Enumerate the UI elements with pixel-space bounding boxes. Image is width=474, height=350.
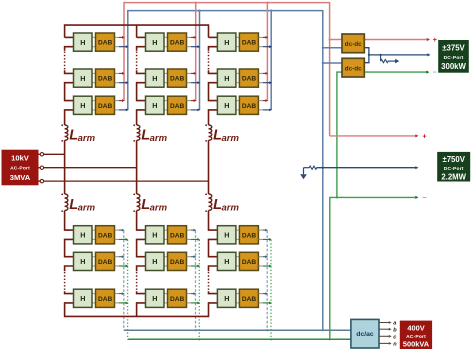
svg-text:H: H xyxy=(224,294,229,303)
label -750V polarity xyxy=(422,193,427,202)
±375V DC port box xyxy=(439,41,469,73)
wire phase-3 upper cell 1 H-DAB links xyxy=(236,37,240,46)
wire phase-2 upper cell 1 DAB+ stub xyxy=(187,36,197,39)
svg-text:DAB: DAB xyxy=(170,259,185,266)
svg-text:DAB: DAB xyxy=(98,40,113,47)
svg-text:H: H xyxy=(80,101,85,110)
wire dc-dc2 + input xyxy=(322,62,342,64)
wire 10kV phase-a line xyxy=(38,153,65,156)
svg-text:H: H xyxy=(152,294,157,303)
DAB converter phase-3 lower cell 1 xyxy=(239,226,258,244)
wire phase-1 LVDC+ collector (dashed slate) xyxy=(123,231,125,330)
DAB converter phase-2 upper cell 2 xyxy=(168,69,187,87)
wire phase-3 MVDC- riser xyxy=(270,10,272,111)
svg-text:H: H xyxy=(152,231,157,240)
H-bridge phase-1 upper cell 3 xyxy=(74,96,93,114)
H-bridge phase-3 lower cell 1 xyxy=(217,226,236,244)
svg-text:+: + xyxy=(422,132,427,141)
H-bridge phase-1 lower cell 3 xyxy=(74,289,93,307)
svg-text:DAB: DAB xyxy=(98,296,113,303)
wire phase-2 lower chain xyxy=(137,211,146,304)
DAB converter phase-1 upper cell 3 xyxy=(96,96,115,114)
wire phase-2 lower cell 2 DAB+ stub xyxy=(187,255,197,258)
svg-text:−: − xyxy=(433,67,438,76)
wire phase-3 lower cell 1 H-DAB links xyxy=(236,230,240,239)
svg-text:H: H xyxy=(224,257,229,266)
wire phase-3 upper cell 3 H-DAB links xyxy=(236,101,240,110)
wire phase-3 LVDC- collector (dotted green) xyxy=(270,240,272,339)
wire phase-1 LVDC- collector (dotted green) xyxy=(127,240,129,339)
svg-text:H: H xyxy=(80,38,85,47)
DAB converter phase-2 upper cell 1 xyxy=(168,33,187,51)
label L_arm phase-1 lower xyxy=(69,197,95,214)
wire MMC top DC bus xyxy=(65,25,209,37)
wire dc-dc1 +375V output xyxy=(364,38,430,41)
svg-text:±750V: ±750V xyxy=(442,155,465,164)
wire phase-2 upper cell 1 H-DAB links xyxy=(164,37,168,46)
ground resistor + down arrow (750V mid) xyxy=(300,166,317,179)
wire phase-1 lower chain xyxy=(65,211,74,304)
wire phase-3 leg mid xyxy=(208,140,210,194)
wire phase-1 leg mid xyxy=(64,140,66,194)
H-bridge phase-3 upper cell 3 xyxy=(217,96,236,114)
svg-text:H: H xyxy=(224,38,229,47)
svg-text:H: H xyxy=(80,231,85,240)
wire phase-3 MVDC+ riser xyxy=(266,1,268,100)
label L_arm phase-2 upper xyxy=(141,128,167,145)
wire phase-3 lower chain xyxy=(209,211,218,304)
svg-text:c: c xyxy=(393,335,397,341)
wire phase-2 lower cell 2 DAB- stub xyxy=(187,265,201,268)
wire MMC bottom DC bus xyxy=(65,303,209,316)
inductor L_arm phase-3 upper xyxy=(205,124,212,141)
wire phase-1 upper cell 2 DAB- stub xyxy=(115,81,129,84)
H-bridge phase-2 upper cell 2 xyxy=(146,69,165,87)
wire phase-1 upper cell 3 H-DAB links xyxy=(92,101,96,110)
svg-text:DAB: DAB xyxy=(242,103,257,110)
svg-text:10kV: 10kV xyxy=(11,154,30,163)
svg-text:H: H xyxy=(80,257,85,266)
wire 750V mid rail xyxy=(317,166,419,169)
svg-text:DAB: DAB xyxy=(170,40,185,47)
svg-text:H: H xyxy=(224,74,229,83)
svg-text:400V: 400V xyxy=(407,323,424,332)
inductor L_arm phase-1 lower xyxy=(61,193,68,212)
DAB converter phase-1 lower cell 1 xyxy=(96,226,115,244)
wire phase-1 upper cell 2 H-DAB links xyxy=(92,73,96,82)
wire phase-3 upper cell 2 DAB- stub xyxy=(258,81,272,84)
wire LVDC- feeder (green vertical from dc-dc 2) xyxy=(336,72,428,198)
DAB converter phase-1 lower cell 3 xyxy=(96,289,115,307)
svg-text:DAB: DAB xyxy=(242,232,257,239)
±750V DC port box xyxy=(438,152,470,181)
DAB converter phase-2 lower cell 1 xyxy=(168,226,187,244)
wire phase-1 upper cell 1 H-DAB links xyxy=(92,37,96,46)
svg-text:dc/ac: dc/ac xyxy=(356,331,374,338)
wire dc-dc1 - input xyxy=(322,47,342,49)
wire phase-1 lower cell 2 DAB+ stub xyxy=(115,255,125,258)
H-bridge phase-3 upper cell 2 xyxy=(217,69,236,87)
svg-text:H: H xyxy=(80,74,85,83)
wire phase-2 upper cell 3 DAB+ stub xyxy=(187,99,197,102)
svg-text:H: H xyxy=(152,101,157,110)
svg-text:DAB: DAB xyxy=(242,259,257,266)
svg-text:DC-Port: DC-Port xyxy=(444,55,464,61)
svg-text:+: + xyxy=(433,35,438,44)
wire phase-1 upper chain xyxy=(65,37,74,125)
DAB converter phase-1 lower cell 2 xyxy=(96,252,115,270)
dc-dc converter 1 box xyxy=(342,34,364,53)
wire MVDC+ collector bus (light red, top) xyxy=(124,3,330,136)
wire phase-2 lower cell 2 H-DAB links xyxy=(164,257,168,266)
svg-text:dc-dc: dc-dc xyxy=(345,65,362,72)
wire -750V rail (green) xyxy=(330,196,419,339)
svg-text:DAB: DAB xyxy=(242,296,257,303)
wire phase-1 upper cell 1 DAB- stub xyxy=(115,45,129,48)
wire phase-2 upper cell 3 H-DAB links xyxy=(164,101,168,110)
wire phase-2 lower cell 3 DAB+ stub xyxy=(187,292,197,295)
dc-dc converter 2 box xyxy=(342,58,364,77)
DAB converter phase-1 upper cell 1 xyxy=(96,33,115,51)
wire dc-dc1 mid output xyxy=(364,48,369,55)
wire phase-3 lower cell 2 DAB+ stub xyxy=(258,255,268,258)
wire phase-2 upper cell 3 DAB- stub xyxy=(187,109,201,112)
dc/ac converter box xyxy=(351,319,379,348)
wire LV mid bus (slate, bottom) xyxy=(124,329,351,331)
svg-text:DAB: DAB xyxy=(170,76,185,83)
svg-text:n: n xyxy=(393,342,397,348)
wire 400V phase c xyxy=(379,335,397,341)
wire phase-2 upper chain xyxy=(137,37,146,125)
inductor L_arm phase-3 lower xyxy=(205,193,212,212)
svg-text:−: − xyxy=(422,193,427,202)
wire phase-3 upper cell 3 DAB- stub xyxy=(258,109,272,112)
label +375V polarity xyxy=(433,35,438,44)
DAB converter phase-3 upper cell 1 xyxy=(239,33,258,51)
wire phase-2 upper cell 2 DAB- stub xyxy=(187,81,201,84)
wire LV mid rail xyxy=(368,53,431,56)
wire dc-dc2 mid output xyxy=(364,55,369,63)
svg-text:DAB: DAB xyxy=(98,259,113,266)
wire phase-2 MVDC- riser xyxy=(198,10,200,111)
svg-text:DAB: DAB xyxy=(98,103,113,110)
svg-text:2.2MW: 2.2MW xyxy=(441,172,466,181)
wire phase-3 lower cell 2 DAB- stub xyxy=(258,265,271,268)
svg-text:DAB: DAB xyxy=(98,232,113,239)
wire phase-3 upper cell 1 DAB+ stub xyxy=(258,36,268,39)
wire phase-3 upper chain xyxy=(209,37,218,125)
H-bridge phase-2 lower cell 3 xyxy=(146,289,165,307)
svg-text:DAB: DAB xyxy=(242,76,257,83)
wire phase-3 lower cell 1 DAB- stub xyxy=(258,238,271,241)
svg-text:H: H xyxy=(152,38,157,47)
svg-text:DAB: DAB xyxy=(242,40,257,47)
DAB converter phase-3 lower cell 3 xyxy=(239,289,258,307)
H-bridge phase-1 upper cell 2 xyxy=(74,69,93,87)
DAB converter phase-2 upper cell 3 xyxy=(168,96,187,114)
label L_arm phase-2 lower xyxy=(141,197,167,214)
wire 10kV phase-c line xyxy=(38,179,209,182)
wire phase-1 lower cell 1 DAB- stub xyxy=(115,238,129,241)
svg-text:arm: arm xyxy=(150,202,168,213)
wire phase-1 lower cell 3 H-DAB links xyxy=(92,294,96,303)
svg-text:b: b xyxy=(393,327,397,333)
inductor L_arm phase-1 upper xyxy=(61,124,68,141)
H-bridge phase-2 upper cell 1 xyxy=(146,33,165,51)
svg-text:H: H xyxy=(224,231,229,240)
wire phase-1 upper cell 3 DAB+ stub xyxy=(115,99,125,102)
svg-text:3MVA: 3MVA xyxy=(10,173,31,182)
svg-text:a: a xyxy=(393,321,396,327)
svg-text:arm: arm xyxy=(78,202,96,213)
DAB converter phase-3 lower cell 2 xyxy=(239,252,258,270)
wire phase-1 lower cell 1 H-DAB links xyxy=(92,230,96,239)
svg-text:H: H xyxy=(152,74,157,83)
inductor L_arm phase-2 upper xyxy=(133,124,140,141)
svg-text:arm: arm xyxy=(222,202,240,213)
green -375V arrowhead xyxy=(426,71,429,74)
wire phase-2 lower cell 1 DAB+ stub xyxy=(187,229,197,232)
wire phase-2 LVDC- collector (dotted green) xyxy=(198,240,200,339)
wire phase-1 lower cell 2 DAB- stub xyxy=(115,265,129,268)
svg-text:DAB: DAB xyxy=(170,232,185,239)
H-bridge phase-1 lower cell 2 xyxy=(74,252,93,270)
svg-text:H: H xyxy=(152,257,157,266)
wire phase-3 lower cell 3 DAB- stub xyxy=(258,302,271,305)
svg-text:arm: arm xyxy=(150,133,168,144)
svg-text:H: H xyxy=(224,101,229,110)
wire 400V phase b xyxy=(379,327,397,333)
H-bridge phase-1 lower cell 1 xyxy=(74,226,93,244)
wire phase-1 upper cell 3 DAB- stub xyxy=(115,109,129,112)
svg-text:±375V: ±375V xyxy=(442,43,465,52)
label -375V polarity xyxy=(433,67,438,76)
wire phase-2 upper cell 2 DAB+ stub xyxy=(187,72,197,75)
wire 400V phase n xyxy=(379,342,397,348)
wire LV- bus (green, bottom) xyxy=(128,338,351,340)
wire phase-3 upper cell 2 H-DAB links xyxy=(236,73,240,82)
wire phase-1 lower cell 3 DAB+ stub xyxy=(115,292,125,295)
wire 10kV phase-b line xyxy=(38,166,137,169)
wire phase-2 LVDC+ collector (dashed slate) xyxy=(195,231,197,330)
DAB converter phase-3 upper cell 3 xyxy=(239,96,258,114)
wire phase-1 lower cell 1 DAB+ stub xyxy=(115,229,125,232)
wire phase-1 lower cell 3 DAB- stub xyxy=(115,302,129,305)
svg-text:DAB: DAB xyxy=(170,103,185,110)
wire phase-2 upper cell 2 H-DAB links xyxy=(164,73,168,82)
svg-text:DC-Port: DC-Port xyxy=(444,166,464,172)
svg-text:H: H xyxy=(80,294,85,303)
inductor L_arm phase-2 lower xyxy=(133,193,140,212)
wire +750V rail xyxy=(330,134,419,137)
10kV AC port box xyxy=(2,150,38,185)
wire phase-3 lower cell 2 H-DAB links xyxy=(236,257,240,266)
svg-text:500kVA: 500kVA xyxy=(403,340,430,349)
wire phase-3 lower cell 3 H-DAB links xyxy=(236,294,240,303)
svg-text:arm: arm xyxy=(78,133,96,144)
H-bridge phase-2 lower cell 2 xyxy=(146,252,165,270)
wire MVDC- collector bus (steel blue, top) xyxy=(128,11,323,331)
wire phase-1 upper cell 2 DAB+ stub xyxy=(115,72,125,75)
wire phase-2 leg mid xyxy=(136,140,138,194)
wire phase-2 lower cell 1 H-DAB links xyxy=(164,230,168,239)
wire phase-2 lower cell 3 DAB- stub xyxy=(187,302,201,305)
wire phase-2 MVDC+ riser xyxy=(195,1,197,100)
wire phase-1 upper cell 1 DAB+ stub xyxy=(115,36,125,39)
ground resistor + arrow (LV mid) xyxy=(381,55,400,64)
wire phase-3 upper cell 1 DAB- stub xyxy=(258,45,272,48)
H-bridge phase-2 upper cell 3 xyxy=(146,96,165,114)
wire phase-3 lower cell 1 DAB+ stub xyxy=(258,229,268,232)
wire phase-1 lower cell 2 H-DAB links xyxy=(92,257,96,266)
svg-text:300kW: 300kW xyxy=(441,62,466,71)
H-bridge phase-3 lower cell 3 xyxy=(217,289,236,307)
wire phase-3 upper cell 2 DAB+ stub xyxy=(258,72,268,75)
label +750V polarity xyxy=(422,132,427,141)
wire phase-3 LVDC+ collector (dashed slate) xyxy=(266,231,268,330)
wire phase-2 lower cell 3 H-DAB links xyxy=(164,294,168,303)
DAB converter phase-2 lower cell 2 xyxy=(168,252,187,270)
wire phase-2 lower cell 1 DAB- stub xyxy=(187,238,201,241)
H-bridge phase-1 upper cell 1 xyxy=(74,33,93,51)
H-bridge phase-3 upper cell 1 xyxy=(217,33,236,51)
DAB converter phase-1 upper cell 2 xyxy=(96,69,115,87)
DAB converter phase-3 upper cell 2 xyxy=(239,69,258,87)
svg-text:dc-dc: dc-dc xyxy=(345,41,362,48)
svg-text:DAB: DAB xyxy=(170,296,185,303)
label L_arm phase-3 upper xyxy=(213,128,239,145)
DAB converter phase-2 lower cell 3 xyxy=(168,289,187,307)
wire dc-dc1 + input xyxy=(329,38,343,40)
400V AC port box xyxy=(400,321,431,349)
H-bridge phase-2 lower cell 1 xyxy=(146,226,165,244)
label L_arm phase-3 lower xyxy=(213,197,239,214)
wire phase-3 lower cell 3 DAB+ stub xyxy=(258,292,268,295)
svg-text:AC-Port: AC-Port xyxy=(10,165,30,171)
svg-text:arm: arm xyxy=(222,133,240,144)
H-bridge phase-3 lower cell 2 xyxy=(217,252,236,270)
wire phase-2 upper cell 1 DAB- stub xyxy=(187,45,201,48)
wire phase-3 upper cell 3 DAB+ stub xyxy=(258,99,268,102)
label L_arm phase-1 upper xyxy=(69,128,95,145)
wire 400V phase a xyxy=(379,321,396,327)
svg-text:DAB: DAB xyxy=(98,76,113,83)
